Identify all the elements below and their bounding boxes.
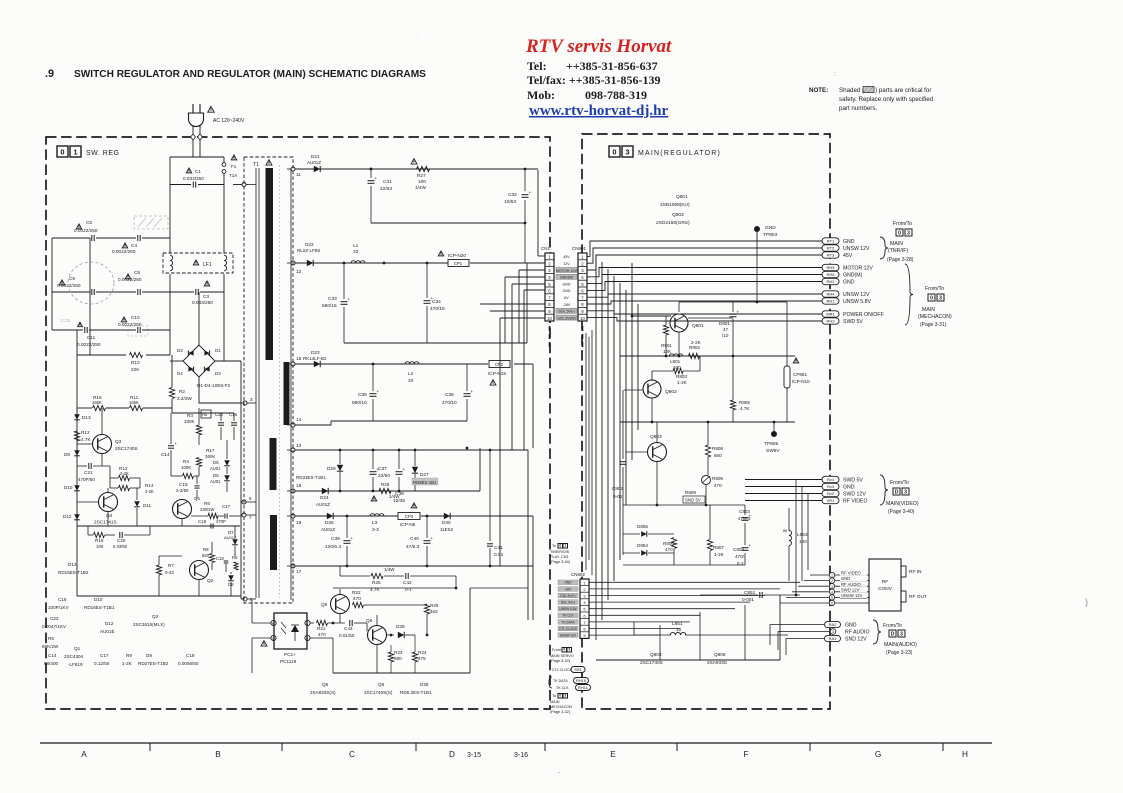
wire left rail A lower	[76, 412, 78, 414]
wire CN801 row 1 to RT1	[587, 241, 822, 256]
svg-text:2-2/50: 2-2/50	[176, 488, 189, 493]
resistor R28 1/4W	[379, 488, 391, 493]
warning triangle CP2	[490, 380, 496, 385]
svg-text:ICP-N10: ICP-N10	[792, 379, 810, 384]
svg-text:GND: GND	[841, 576, 850, 581]
wire row pin15	[295, 363, 488, 365]
svg-text:R15: R15	[95, 538, 104, 543]
transformer primary pin 3b	[243, 401, 247, 405]
svg-text:14: 14	[296, 417, 302, 423]
svg-text:2SA933S(S): 2SA933S(S)	[310, 690, 336, 695]
warning triangle T1	[266, 160, 272, 165]
transformer secondary pin 14	[291, 423, 295, 427]
svg-text:part numbers.: part numbers.	[839, 105, 877, 112]
svg-text:0.0022/250: 0.0022/250	[118, 277, 142, 282]
capacitor C31 22/63	[370, 169, 372, 178]
svg-text:RH10: RH10	[576, 678, 587, 683]
wire C1 row	[170, 184, 191, 186]
svg-text:2: 2	[307, 637, 309, 641]
transistor Q803	[648, 443, 667, 462]
svg-text:R10: R10	[131, 360, 140, 365]
wire bottom right box	[596, 659, 780, 661]
capacitor C804 470/6.3	[742, 547, 749, 549]
svg-text:RF AUDIO: RF AUDIO	[841, 582, 862, 587]
svg-text:B: B	[215, 750, 221, 759]
svg-text:R25: R25	[430, 603, 439, 608]
svg-text:6V: 6V	[564, 296, 569, 300]
svg-text:470/: 470/	[735, 554, 745, 559]
transformer primary pin 8	[243, 597, 247, 601]
svg-text:R12: R12	[81, 430, 90, 435]
svg-text:D25: D25	[325, 520, 334, 525]
capacitor C5	[91, 235, 93, 241]
wire TP803 down	[756, 241, 758, 302]
brace TNR IF group	[880, 237, 888, 259]
svg-text:TK DATA: TK DATA	[553, 679, 568, 683]
svg-text:D: D	[895, 489, 899, 495]
svg-text:Q802: Q802	[672, 212, 684, 218]
svg-text:3-16: 3-16	[514, 752, 528, 759]
svg-text:120/6.3: 120/6.3	[325, 544, 341, 550]
diode D24 AU01Z	[322, 488, 328, 494]
svg-text:CTL CLOCK: CTL CLOCK	[552, 668, 573, 672]
svg-text:-30V: -30V	[565, 587, 573, 591]
svg-text:C5: C5	[86, 220, 92, 225]
svg-text:R23: R23	[394, 650, 403, 655]
transformer secondary pin 18	[291, 514, 295, 518]
svg-text:++385-31-856-637: ++385-31-856-637	[566, 59, 658, 73]
svg-text:Q2: Q2	[152, 614, 159, 619]
svg-text:5: 5	[831, 596, 833, 600]
inductor L801 100	[669, 354, 682, 356]
svg-text:462: 462	[430, 609, 438, 614]
svg-text:470: 470	[714, 483, 722, 488]
svg-text:To: To	[552, 694, 556, 698]
svg-text:47/6-3: 47/6-3	[738, 516, 751, 521]
svg-text:SW5V: SW5V	[766, 448, 780, 454]
photo coupler PC1	[274, 613, 307, 649]
svg-text:0.12/50: 0.12/50	[94, 661, 110, 666]
svg-text:C40: C40	[410, 536, 419, 542]
wire Q3 collector	[101, 408, 103, 434]
svg-text:2: 2	[831, 579, 833, 583]
resistor R16 165K	[93, 405, 106, 410]
svg-text:Q6: Q6	[366, 618, 373, 623]
svg-text:1/4W: 1/4W	[384, 567, 395, 572]
wire Q4 connections	[77, 501, 98, 503]
circuit protector CP1	[448, 260, 469, 267]
svg-text:R2: R2	[179, 389, 185, 394]
svg-text:RA1: RA1	[829, 636, 838, 641]
warning triangle CP3	[411, 503, 417, 508]
svg-text:GND: GND	[563, 289, 571, 293]
svg-text:RTV servis Horvat: RTV servis Horvat	[525, 36, 672, 57]
svg-text:RF AUDIO: RF AUDIO	[845, 630, 870, 636]
wire Q801 collector top	[678, 302, 680, 312]
diode D8	[228, 575, 234, 581]
svg-text:R17: R17	[206, 448, 215, 453]
wire PC1 left connections	[252, 622, 271, 624]
svg-text:RT3: RT3	[827, 253, 835, 258]
wire row R16 R11	[77, 407, 92, 409]
svg-text:CN1: CN1	[541, 246, 550, 251]
svg-text:RH2: RH2	[826, 279, 835, 284]
svg-text:R9: R9	[232, 555, 238, 560]
wire CN801 row 3 to RT3	[587, 255, 822, 270]
svg-text:3: 3	[568, 647, 570, 651]
svg-text:ICP-N5: ICP-N5	[400, 522, 416, 527]
zener D27 RD8ES-T1B1	[412, 467, 418, 473]
svg-text:TP805: TP805	[764, 441, 778, 447]
svg-text:2SC1740S: 2SC1740S	[115, 446, 138, 451]
svg-text:R22: R22	[352, 590, 361, 595]
diode D22 RL2Z-LFB2	[307, 260, 313, 266]
wire rail x224 lower	[223, 274, 225, 361]
wire left rail A	[51, 238, 53, 330]
svg-text:Q801: Q801	[692, 323, 704, 329]
svg-text:R802: R802	[689, 345, 700, 350]
wire C42 right down	[455, 576, 457, 588]
svg-text:0: 0	[563, 647, 565, 651]
capacitor C41 0.01	[489, 450, 491, 541]
svg-text:AU01: AU01	[210, 466, 221, 471]
svg-text:GND: GND	[843, 485, 855, 491]
capacitor C14b	[168, 445, 174, 447]
svg-text:3-3: 3-3	[372, 527, 379, 532]
connector tab RH6	[822, 271, 839, 277]
svg-text:RF: RF	[882, 579, 888, 585]
svg-text:C4: C4	[131, 243, 137, 248]
svg-text:D30: D30	[442, 520, 451, 525]
wire Q6 net	[376, 615, 378, 625]
wire verticals between connectors	[591, 330, 593, 575]
resistor R26 4.7K 1/4W	[371, 573, 383, 578]
svg-text:360K: 360K	[205, 454, 215, 459]
resistor R2 2.2/2W	[169, 388, 174, 399]
resistor R802 2.2K	[689, 353, 700, 358]
svg-text:C: C	[349, 750, 355, 759]
transformer secondary pin 17	[291, 564, 295, 568]
transformer secondary pin 11	[291, 167, 295, 171]
svg-text:C851: C851	[744, 590, 756, 595]
wire bottom row y596	[77, 595, 241, 597]
svg-text:0.033/250: 0.033/250	[183, 176, 204, 181]
svg-text:+: +	[348, 297, 351, 302]
capacitor C38 10/35	[398, 450, 400, 469]
svg-text:R4: R4	[183, 459, 189, 464]
svg-text:D5: D5	[213, 473, 219, 478]
connector tab RA2	[825, 621, 841, 627]
svg-text:2SD2166(GRS): 2SD2166(GRS)	[656, 220, 690, 226]
svg-text:47: 47	[723, 327, 729, 332]
svg-text:GND: GND	[843, 280, 855, 286]
svg-text:RD27ES-T1B2: RD27ES-T1B2	[138, 661, 169, 666]
degauss dashed ellipse	[68, 262, 114, 304]
transformer core bar mid	[284, 362, 290, 425]
svg-text:(Page 3-32): (Page 3-32)	[550, 710, 571, 714]
diode D854	[641, 550, 647, 556]
svg-text:C9: C9	[69, 276, 75, 281]
svg-text:12: 12	[296, 269, 302, 275]
diode D12	[74, 514, 80, 520]
diode D9	[74, 450, 80, 456]
svg-text:POWER ON/OFF: POWER ON/OFF	[843, 312, 884, 318]
svg-text:RD6.2ES-T1B1: RD6.2ES-T1B1	[400, 690, 432, 695]
svg-text:RK14LF-B2: RK14LF-B2	[303, 356, 327, 361]
svg-text:3: 3	[907, 230, 910, 236]
resistor R21 470	[310, 622, 314, 624]
diode D10	[74, 485, 80, 491]
brace video group	[880, 475, 888, 505]
inductor L851 10	[670, 632, 686, 635]
transistor Q2	[190, 561, 209, 580]
svg-text:SWD 5V: SWD 5V	[843, 319, 863, 325]
svg-text:C22: C22	[50, 616, 59, 621]
svg-text:GND: GND	[845, 623, 857, 629]
svg-text:AU01Z: AU01Z	[316, 502, 330, 507]
wire CN801 row 5 to RH6	[587, 275, 822, 284]
svg-text:165K: 165K	[92, 400, 102, 405]
svg-text:RF VIDEO: RF VIDEO	[841, 571, 862, 576]
svg-text:PLAY. CN1: PLAY. CN1	[550, 555, 569, 559]
svg-text:H: H	[962, 750, 968, 759]
svg-text:CP3: CP3	[405, 514, 414, 519]
transistor Q6	[368, 626, 387, 645]
wire bottom return	[470, 587, 528, 589]
transformer core bar mid2	[270, 438, 277, 490]
svg-text:SOL.5V(W): SOL.5V(W)	[557, 316, 575, 320]
wire CN801 row 7 to RH4	[587, 294, 822, 297]
circuit protector CP2	[489, 361, 510, 368]
svg-text:C16: C16	[58, 597, 67, 602]
svg-text:RD33ES-T1B1: RD33ES-T1B1	[296, 475, 326, 480]
svg-text:D11: D11	[143, 503, 152, 508]
svg-text:SW. REG: SW. REG	[86, 150, 119, 157]
resistor R15 100	[94, 532, 105, 537]
diode D7 AU01Z	[232, 539, 238, 545]
diode D30 11ES2	[444, 513, 450, 519]
resistor R22 470	[353, 602, 364, 607]
transformer core bar upper	[266, 168, 274, 360]
wire row pin16	[295, 490, 480, 492]
capacitor C33 680/16	[343, 263, 345, 299]
svg-text:C41: C41	[494, 545, 503, 551]
brace servo tabs	[549, 677, 552, 688]
svg-text:D10: D10	[64, 485, 73, 490]
svg-text:(Page 3-20): (Page 3-20)	[550, 659, 571, 663]
RF converter pin 1	[829, 572, 834, 577]
svg-text:10: 10	[676, 627, 682, 632]
connector tab MR1	[822, 311, 839, 317]
svg-text:R803: R803	[676, 374, 687, 379]
svg-text:RH4: RH4	[826, 292, 835, 297]
svg-text:0.33/50: 0.33/50	[113, 544, 128, 549]
svg-text:To: To	[552, 544, 556, 548]
inductor L1 33	[351, 261, 365, 263]
warning triangle CP851	[793, 358, 799, 363]
wire x540 down to CN1	[537, 170, 539, 256]
capacitor C37 22/50	[372, 450, 374, 469]
svg-text:0-33: 0-33	[165, 570, 174, 575]
svg-text:D22: D22	[305, 242, 314, 247]
svg-text:UNSW 5.8V: UNSW 5.8V	[559, 607, 577, 611]
svg-text:CONV: CONV	[878, 586, 893, 592]
svg-text:+: +	[737, 310, 740, 315]
wire row pin13	[295, 449, 528, 451]
RF converter pin 4	[829, 589, 834, 594]
svg-text:Tel:: Tel:	[527, 59, 547, 73]
svg-text:Q5: Q5	[322, 682, 329, 687]
svg-text:Q3: Q3	[115, 439, 122, 444]
svg-text:+: +	[471, 389, 474, 394]
resistor R806 470	[671, 538, 676, 549]
connector tab RT1	[822, 238, 839, 244]
svg-text:C21: C21	[84, 470, 93, 475]
svg-text:D6: D6	[213, 460, 219, 465]
transformer secondary pin 13	[291, 448, 295, 452]
inductor L2 33	[405, 362, 419, 364]
svg-text:0.0022/250: 0.0022/250	[74, 228, 98, 233]
svg-text:RF IN: RF IN	[909, 569, 922, 575]
wire Q801 to D801	[688, 317, 733, 319]
resistor R27 100 1/4W	[417, 166, 430, 171]
transistor Q5	[331, 595, 350, 614]
svg-text:88: 88	[783, 529, 787, 533]
svg-text:1/4W: 1/4W	[389, 494, 400, 499]
svg-text:+: +	[377, 389, 380, 394]
wire CN801 row 4 to RH5	[587, 268, 822, 277]
svg-text:D12: D12	[63, 514, 72, 519]
capacitor C21 470P/50	[88, 463, 90, 469]
svg-text:L801: L801	[670, 359, 681, 364]
wire row R26 C42	[340, 575, 370, 577]
svg-text:C802: C802	[612, 486, 624, 491]
wire row C5 C4	[52, 237, 90, 239]
svg-text:R24: R24	[418, 650, 427, 655]
svg-text:(Page 3-44): (Page 3-44)	[550, 560, 571, 564]
svg-text:Rv1: Rv1	[827, 477, 835, 482]
svg-text:680/16: 680/16	[322, 303, 337, 309]
connector tab Rv2	[822, 490, 839, 496]
diode D28	[398, 632, 404, 638]
resistor R805 4.7K	[730, 400, 735, 410]
svg-text:2SC1741S: 2SC1741S	[94, 520, 117, 525]
RF IN tab	[901, 566, 906, 577]
warning triangle AC	[208, 106, 215, 112]
svg-text:UNSW 12V: UNSW 12V	[843, 292, 870, 298]
svg-text:33: 33	[353, 249, 359, 254]
svg-text:GND(M): GND(M)	[843, 273, 863, 279]
wire long row y526	[77, 525, 240, 527]
svg-text:RF OUT: RF OUT	[909, 594, 927, 600]
transformer core bar lower	[270, 515, 277, 570]
test point TP805	[771, 431, 776, 436]
wire bridge connections	[170, 360, 183, 362]
svg-text:RD8ES-1B1: RD8ES-1B1	[413, 480, 437, 485]
svg-text:13: 13	[296, 443, 302, 449]
wire row pin11 return	[371, 222, 525, 224]
svg-text:C14: C14	[161, 452, 170, 457]
svg-text:0-01: 0-01	[613, 494, 623, 499]
svg-text:C804: C804	[733, 547, 744, 552]
wires video verticals	[795, 480, 797, 596]
wire bundle verticals right box	[595, 255, 597, 640]
RF converter pin 3	[829, 584, 834, 589]
svg-text:C19: C19	[216, 556, 224, 561]
svg-text:0-001: 0-001	[742, 597, 754, 602]
svg-text:SND 5V: SND 5V	[685, 498, 701, 503]
warning triangle PC1	[261, 641, 267, 646]
circuit protector CP3	[398, 513, 420, 520]
wire AC plug to bridge loop	[192, 126, 194, 157]
svg-text:LF1: LF1	[203, 262, 212, 268]
svg-text:F: F	[743, 750, 748, 759]
wire CN801 row 10 to RH3	[587, 318, 822, 321]
svg-text:AU01Z: AU01Z	[307, 160, 321, 165]
wire rail x77	[76, 330, 78, 413]
svg-text:MAIN: MAIN	[922, 307, 935, 313]
svg-text:1CZ5: 1CZ5	[60, 318, 71, 323]
svg-text:D854: D854	[637, 543, 648, 548]
transistor Q1	[173, 500, 192, 519]
block label 03 MAIN(REGULATOR)	[609, 146, 620, 157]
svg-text:R809: R809	[685, 490, 696, 495]
svg-text:0.0056/50: 0.0056/50	[178, 661, 199, 666]
warning triangle ICP-N20	[438, 251, 444, 256]
svg-text:RT2: RT2	[827, 246, 835, 251]
capacitor C35 680/10	[372, 364, 374, 391]
wires CN802 to right	[589, 581, 800, 583]
svg-text:C11: C11	[87, 335, 96, 340]
wire RF pins left	[810, 574, 829, 576]
svg-text:C37: C37	[378, 466, 387, 472]
wire row pin12 return	[344, 342, 527, 344]
capacitor C42 0.1	[405, 573, 407, 579]
svg-text:Q1: Q1	[74, 646, 81, 651]
svg-text:B: B	[272, 622, 274, 626]
svg-text:12V: 12V	[563, 262, 570, 266]
svg-text:680/10: 680/10	[352, 400, 367, 406]
svg-text:D1-D4-10E6-F2: D1-D4-10E6-F2	[197, 383, 230, 388]
wire row y422	[620, 421, 795, 423]
svg-text:Q6: Q6	[378, 682, 385, 687]
svg-text:17: 17	[296, 569, 302, 575]
svg-text:GND: GND	[765, 225, 776, 231]
svg-text:0: 0	[898, 230, 901, 236]
svg-text:C8: C8	[134, 270, 140, 275]
svg-text:100: 100	[96, 544, 104, 549]
svg-text:Tel/fax: ++385-31-856-139: Tel/fax: ++385-31-856-139	[527, 73, 661, 87]
brace MECHACON group	[905, 264, 913, 325]
svg-text:3: 3	[831, 585, 833, 589]
svg-text:.9: .9	[45, 68, 54, 80]
diode D5 AU01	[224, 475, 230, 481]
svg-text:-LF619: -LF619	[68, 662, 83, 667]
svg-text:safety. Replace only with spec: safety. Replace only with specified	[839, 96, 934, 103]
svg-text:GND(M): GND(M)	[560, 276, 573, 280]
svg-text:470: 470	[353, 596, 361, 601]
transistor Q3	[93, 435, 112, 454]
ruler ticks	[149, 743, 151, 751]
svg-text:11: 11	[296, 172, 301, 178]
wire to VR1	[745, 500, 822, 502]
diode D855	[641, 531, 647, 537]
svg-text:Shaded (: Shaded (	[839, 87, 865, 94]
svg-text:RD15ES-T1B2: RD15ES-T1B2	[58, 570, 89, 575]
svg-text:1: 1	[564, 543, 566, 547]
capacitor C40 47/6.3	[426, 516, 428, 538]
wire input loop right vertical	[223, 157, 225, 163]
